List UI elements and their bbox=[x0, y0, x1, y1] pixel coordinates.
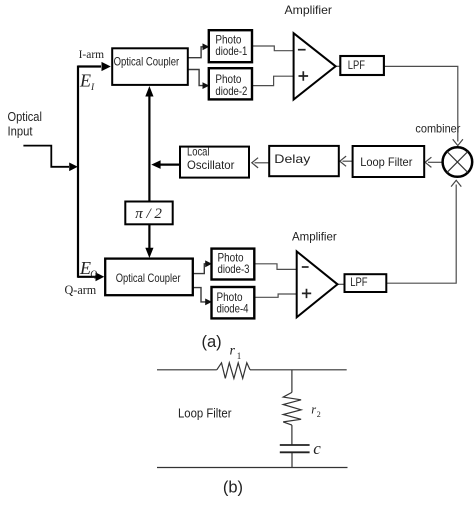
svg-text:diode-4: diode-4 bbox=[217, 302, 249, 316]
svg-text:2: 2 bbox=[317, 410, 321, 419]
svg-text:Loop Filter: Loop Filter bbox=[178, 407, 232, 421]
svg-text:diode-2: diode-2 bbox=[215, 84, 247, 98]
svg-text:r: r bbox=[311, 403, 316, 417]
svg-text:π / 2: π / 2 bbox=[135, 206, 162, 222]
svg-text:diode-3: diode-3 bbox=[218, 262, 250, 276]
svg-text:r: r bbox=[230, 344, 236, 359]
svg-text:Amplifier: Amplifier bbox=[292, 230, 337, 244]
svg-text:Local: Local bbox=[187, 144, 210, 158]
svg-text:(a): (a) bbox=[202, 333, 222, 351]
svg-text:LPF: LPF bbox=[350, 275, 367, 289]
svg-text:(b): (b) bbox=[223, 478, 243, 496]
svg-text:1: 1 bbox=[237, 351, 242, 361]
svg-text:E: E bbox=[79, 258, 91, 278]
svg-text:diode-1: diode-1 bbox=[215, 44, 247, 58]
svg-text:Optical: Optical bbox=[8, 110, 42, 124]
svg-text:Optical Coupler: Optical Coupler bbox=[114, 55, 180, 69]
svg-text:c: c bbox=[313, 439, 321, 458]
svg-text:Delay: Delay bbox=[274, 152, 310, 166]
svg-text:Loop Filter: Loop Filter bbox=[360, 155, 412, 169]
svg-text:Oscillator: Oscillator bbox=[187, 158, 234, 172]
svg-text:Input: Input bbox=[8, 124, 33, 138]
svg-text:Q: Q bbox=[90, 270, 97, 280]
svg-text:Amplifier: Amplifier bbox=[285, 3, 333, 17]
svg-text:Q-arm: Q-arm bbox=[65, 283, 97, 297]
svg-text:E: E bbox=[79, 70, 91, 90]
svg-text:Optical Coupler: Optical Coupler bbox=[116, 271, 181, 285]
svg-text:combiner: combiner bbox=[415, 121, 460, 135]
svg-text:LPF: LPF bbox=[348, 58, 365, 72]
svg-text:I-arm: I-arm bbox=[79, 47, 105, 61]
